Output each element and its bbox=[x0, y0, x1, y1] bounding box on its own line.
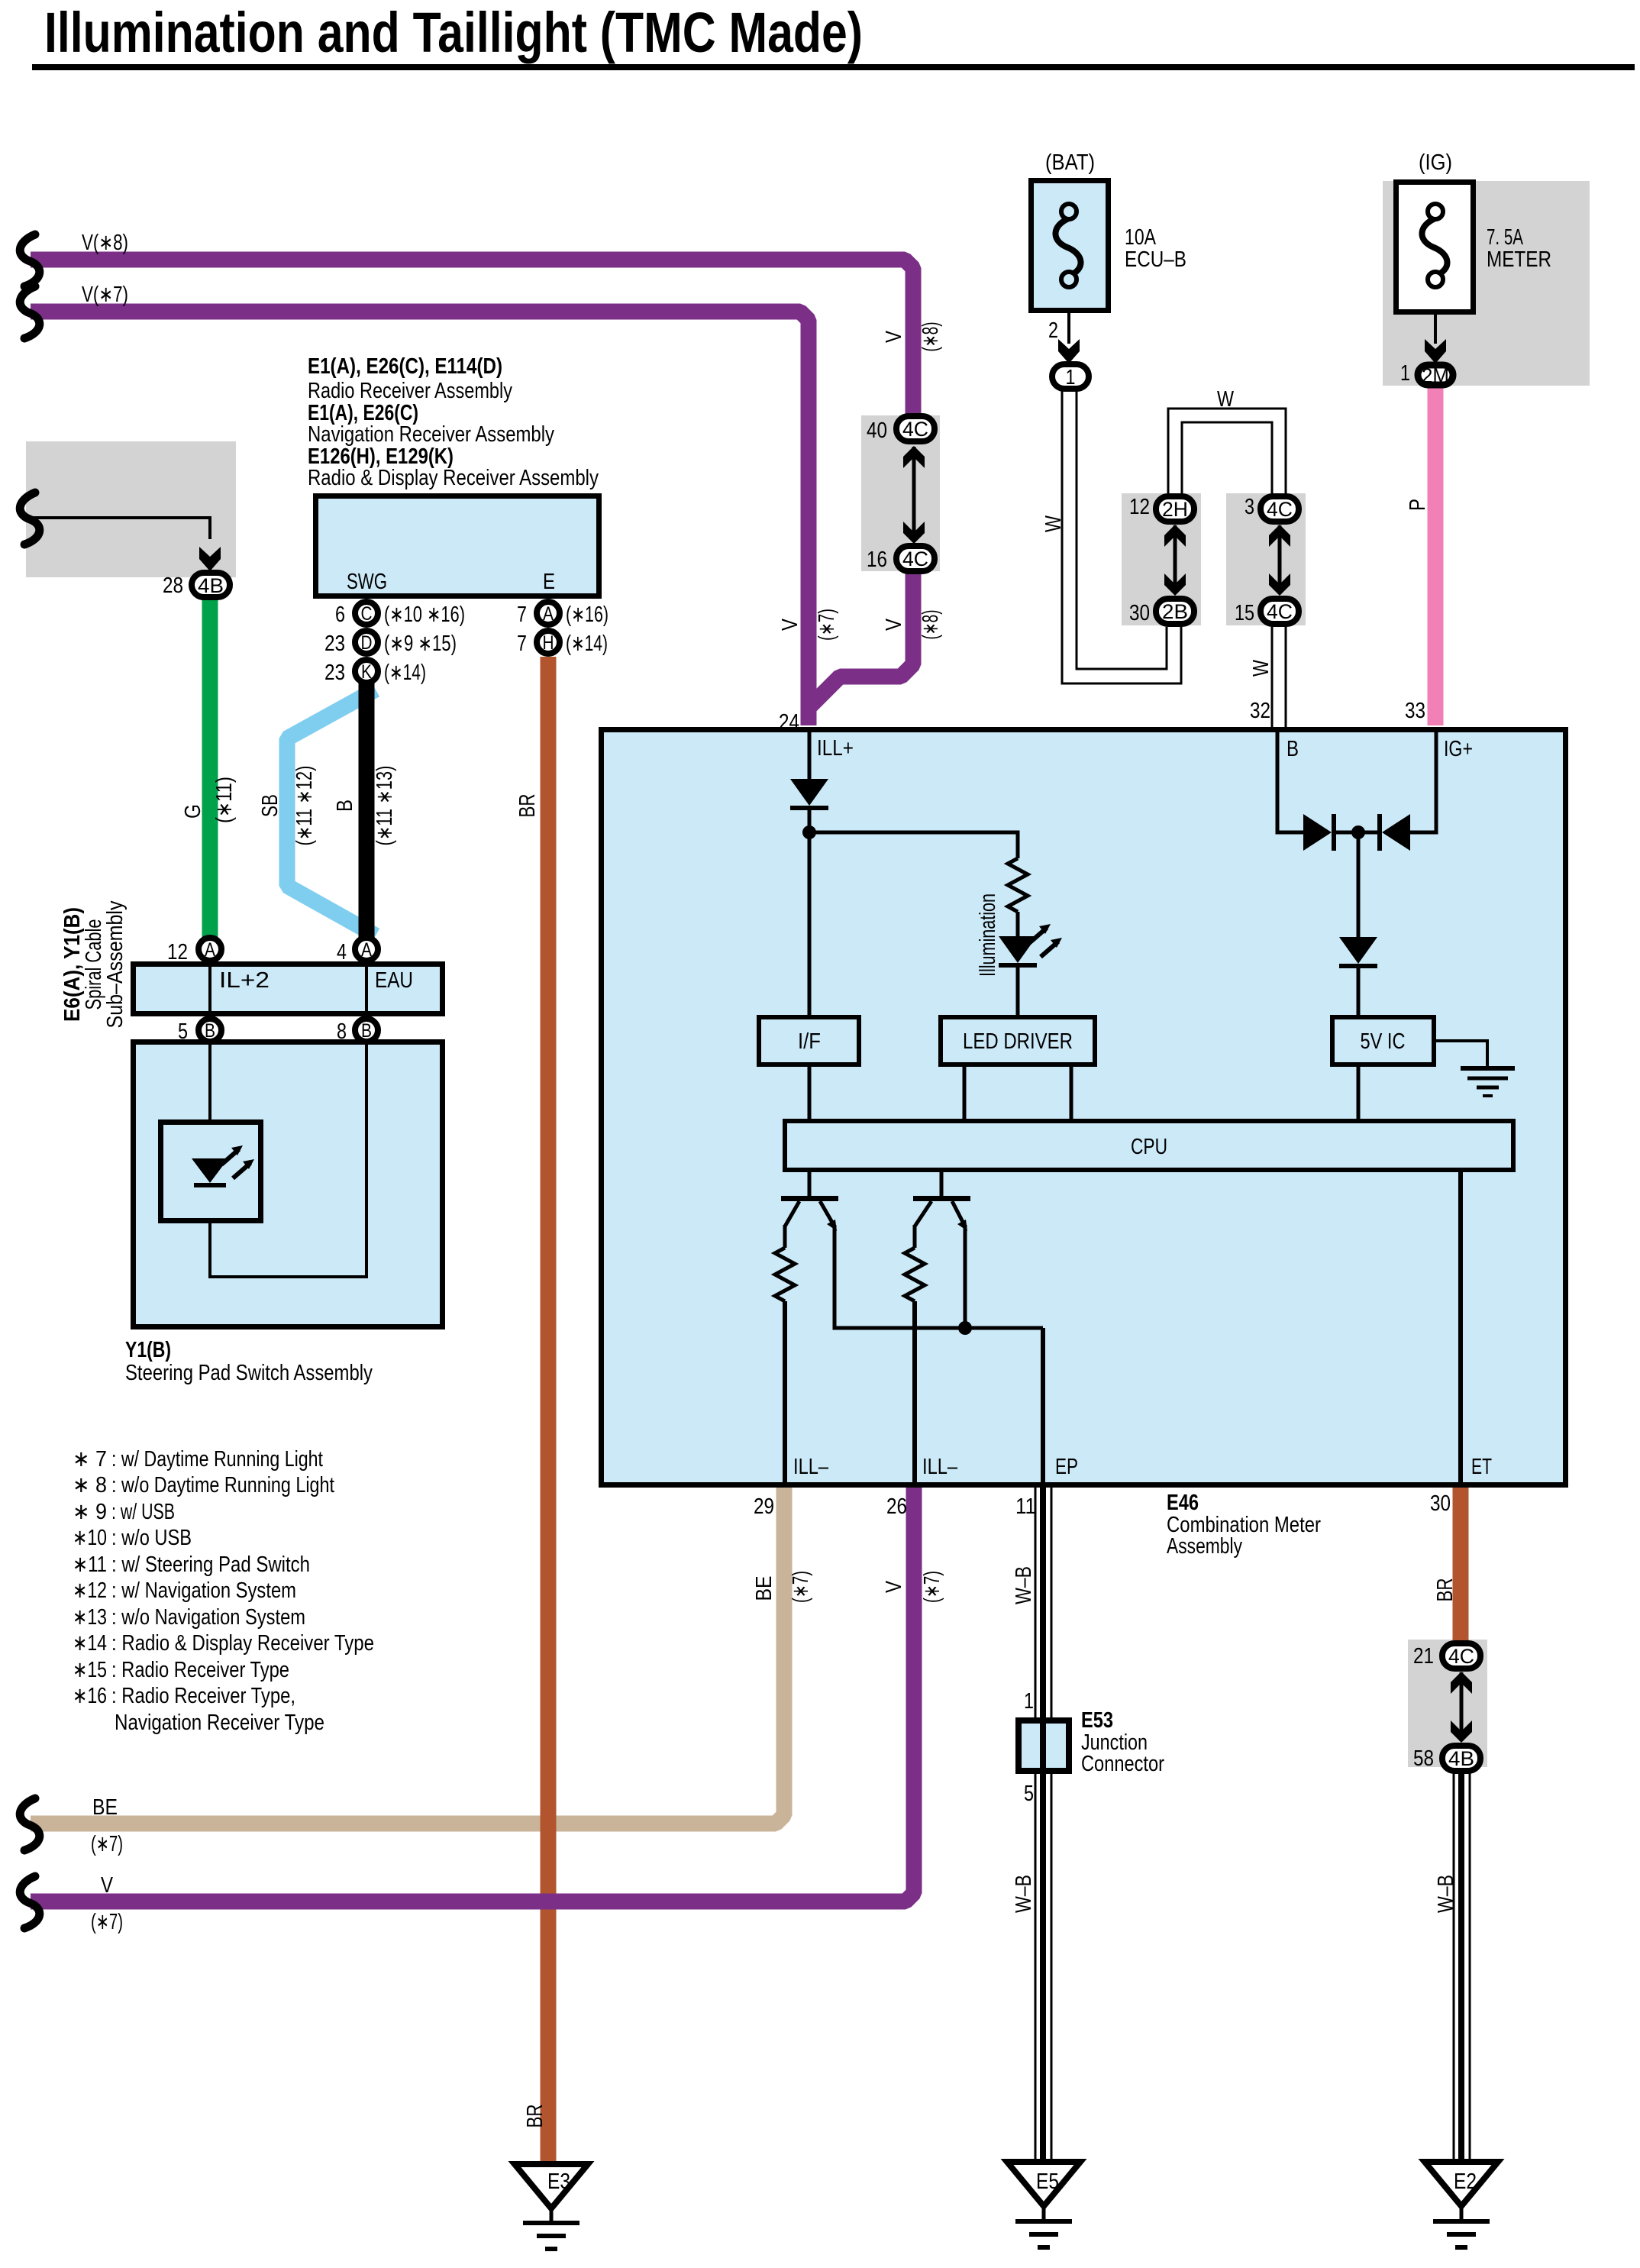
svg-text:A: A bbox=[361, 939, 372, 961]
transistor Q2 base wire bbox=[940, 1170, 944, 1196]
connector pair 21-4C / 58-4B double arrow bbox=[1460, 1672, 1464, 1741]
gray rect of 40/16 4C connector pair bbox=[861, 415, 940, 571]
arrow into connector 28-4B bbox=[199, 547, 221, 571]
svg-text:3: 3 bbox=[1245, 495, 1254, 519]
svg-text:∗11: ∗11 bbox=[73, 1552, 107, 1577]
svg-text:(∗7): (∗7) bbox=[91, 1910, 123, 1934]
svg-text:IL+2: IL+2 bbox=[219, 968, 270, 993]
svg-text:6: 6 bbox=[335, 603, 345, 627]
svg-text:BR: BR bbox=[1433, 1578, 1458, 1602]
wire B pin 32 internal bbox=[1277, 730, 1303, 832]
svg-text:V: V bbox=[882, 1580, 906, 1593]
svg-text:∗14: ∗14 bbox=[73, 1631, 107, 1656]
svg-text:H: H bbox=[543, 632, 554, 654]
svg-text:1: 1 bbox=[1024, 1689, 1034, 1714]
svg-text:11: 11 bbox=[1015, 1494, 1036, 1519]
svg-text:24: 24 bbox=[779, 710, 799, 735]
svg-text:(∗11 ∗12): (∗11 ∗12) bbox=[292, 766, 317, 846]
svg-text:7: 7 bbox=[517, 632, 527, 656]
svg-text:(∗16): (∗16) bbox=[566, 603, 609, 627]
wire W-B from connector 58-4B down to ground E2 bbox=[1453, 1764, 1455, 2159]
svg-text:33: 33 bbox=[1405, 699, 1425, 723]
svg-text:Assembly: Assembly bbox=[1167, 1534, 1242, 1559]
connector 40-4C oval bbox=[896, 416, 935, 441]
wire between diodes down to 5V IC bbox=[1336, 831, 1377, 835]
svg-text:BE: BE bbox=[92, 1795, 118, 1820]
wire Q1 emitter to EP bbox=[835, 1225, 1043, 1328]
fuse ECU-B (BAT) box bbox=[1031, 181, 1109, 311]
svg-text:∗15: ∗15 bbox=[73, 1658, 107, 1682]
diode D2 (from B) bbox=[1303, 814, 1332, 851]
connector 3-4C oval bbox=[1261, 496, 1299, 522]
svg-text:K: K bbox=[361, 661, 372, 683]
svg-text:W: W bbox=[1249, 659, 1274, 677]
spiral cable sub-assembly box bbox=[134, 964, 443, 1014]
wire through spiral box left bbox=[208, 964, 211, 1016]
radio pin H circle bbox=[537, 631, 560, 654]
svg-text:I/F: I/F bbox=[798, 1029, 821, 1054]
wire W loop from connector 12-2H to connector 3-4C bbox=[1168, 409, 1286, 495]
svg-text:Radio & Display Receiver Assem: Radio & Display Receiver Assembly bbox=[308, 466, 599, 490]
CPU box bbox=[785, 1121, 1513, 1170]
E53 junction connector box bbox=[1019, 1720, 1069, 1771]
svg-text:2: 2 bbox=[1048, 318, 1058, 343]
svg-text:Navigation Receiver Type: Navigation Receiver Type bbox=[115, 1711, 324, 1735]
svg-text:(IG): (IG) bbox=[1419, 150, 1452, 175]
wires LED DRIVER to CPU bbox=[963, 1065, 967, 1119]
node junction between diodes bbox=[1351, 825, 1365, 839]
wire ILL- pin 26 internal bbox=[912, 1301, 917, 1485]
svg-text:30: 30 bbox=[1430, 1491, 1451, 1516]
wire from IG fuse to connector 2M bbox=[1434, 314, 1437, 344]
connector 21-4C oval bbox=[1442, 1643, 1480, 1669]
svg-text:: w/ USB: : w/ USB bbox=[111, 1500, 175, 1524]
svg-text:ECU–B: ECU–B bbox=[1125, 247, 1186, 272]
node junction on ILL+ line bbox=[802, 825, 816, 839]
svg-text:4: 4 bbox=[337, 940, 347, 964]
arrow into connector 1 bbox=[1058, 339, 1080, 363]
svg-text:4B: 4B bbox=[198, 574, 224, 597]
E46 combination meter assembly box bbox=[602, 730, 1566, 1485]
5V IC box bbox=[1332, 1017, 1434, 1065]
svg-text:ILL–: ILL– bbox=[793, 1455, 829, 1479]
resistor R2 (ILL-) bbox=[905, 1248, 925, 1301]
svg-text:B: B bbox=[1286, 737, 1299, 761]
radio pin K circle bbox=[355, 660, 378, 683]
svg-text:A: A bbox=[543, 603, 554, 625]
connector 30-2B oval bbox=[1156, 599, 1194, 624]
svg-text:(∗11 ∗13): (∗11 ∗13) bbox=[373, 766, 397, 846]
gray rect of 3-4C/15-4C connector pair bbox=[1226, 493, 1306, 625]
connector 15-4C oval bbox=[1261, 599, 1299, 624]
svg-text:26: 26 bbox=[886, 1494, 907, 1519]
steering pad switch assembly box bbox=[134, 1042, 443, 1327]
LED illumination bbox=[999, 936, 1037, 963]
svg-text:BE: BE bbox=[752, 1576, 776, 1601]
svg-text:V(∗8): V(∗8) bbox=[82, 231, 128, 255]
svg-text:E5: E5 bbox=[1036, 2169, 1059, 2194]
LED in steering pad switch bbox=[192, 1158, 228, 1183]
svg-text:: Radio Receiver Type: : Radio Receiver Type bbox=[111, 1658, 289, 1682]
svg-text:P: P bbox=[1406, 499, 1430, 511]
break symbol for bottom wire V bbox=[20, 1876, 40, 1928]
svg-text:: w/o Daytime Running Light: : w/o Daytime Running Light bbox=[111, 1473, 334, 1497]
svg-text:(∗8): (∗8) bbox=[918, 322, 943, 352]
svg-text:4C: 4C bbox=[1267, 600, 1293, 623]
transistor Q2 bbox=[913, 1196, 970, 1201]
I/F box bbox=[759, 1017, 859, 1065]
svg-text:: w/o Navigation System: : w/o Navigation System bbox=[111, 1605, 305, 1630]
svg-text:4B: 4B bbox=[1448, 1747, 1474, 1770]
connector pair 3-4C / 15-4C double arrow bbox=[1278, 525, 1282, 594]
svg-text:CPU: CPU bbox=[1131, 1135, 1167, 1159]
wire ILL+ pin 24 internal bbox=[808, 730, 812, 779]
svg-text:∗13: ∗13 bbox=[73, 1605, 107, 1630]
svg-text:Navigation Receiver Assembly: Navigation Receiver Assembly bbox=[308, 422, 554, 447]
svg-text:4C: 4C bbox=[1267, 498, 1293, 521]
svg-text:58: 58 bbox=[1413, 1746, 1434, 1771]
svg-text:∗16: ∗16 bbox=[73, 1684, 107, 1708]
svg-text:: w/ Daytime Running Light: : w/ Daytime Running Light bbox=[111, 1447, 323, 1472]
wire IG+ pin 33 internal bbox=[1410, 730, 1436, 832]
svg-text:B: B bbox=[205, 1020, 215, 1042]
radio pin C circle bbox=[355, 602, 378, 625]
svg-text:E3: E3 bbox=[547, 2169, 570, 2194]
fuse METER (IG) box bbox=[1396, 183, 1474, 312]
svg-text:E: E bbox=[543, 570, 555, 594]
svg-text:Y1(B): Y1(B) bbox=[125, 1338, 171, 1362]
svg-text:Illumination and Taillight (TM: Illumination and Taillight (TMC Made) bbox=[44, 1, 863, 64]
svg-text:W: W bbox=[1041, 515, 1066, 532]
wire through spiral box right bbox=[365, 964, 368, 1016]
svg-text:(∗14): (∗14) bbox=[566, 632, 608, 656]
svg-text:23: 23 bbox=[324, 632, 345, 656]
svg-text:2B: 2B bbox=[1162, 600, 1188, 623]
svg-text:(∗7): (∗7) bbox=[920, 1571, 944, 1603]
radio pin A circle bbox=[537, 602, 560, 625]
svg-text:: w/ Navigation System: : w/ Navigation System bbox=[111, 1578, 296, 1603]
wire Q1 collector to resistor bbox=[783, 1225, 787, 1248]
svg-text:40: 40 bbox=[867, 418, 887, 443]
svg-text:: Radio & Display Receiver Typ: : Radio & Display Receiver Type bbox=[111, 1631, 374, 1656]
svg-text:G: G bbox=[181, 804, 205, 819]
connector 1 (BAT) oval bbox=[1052, 364, 1089, 389]
connector 28-4B oval bbox=[192, 573, 230, 597]
svg-text:(∗9 ∗15): (∗9 ∗15) bbox=[384, 632, 457, 656]
svg-text:7. 5A: 7. 5A bbox=[1487, 225, 1523, 250]
radio pin D circle bbox=[355, 631, 378, 654]
svg-text:ILL+: ILL+ bbox=[817, 736, 854, 761]
LED DRIVER box bbox=[941, 1017, 1095, 1065]
ground E3 bbox=[515, 2164, 588, 2208]
wire P pink: from 2M connector down to E46 pin 33 IG+ bbox=[1428, 386, 1444, 725]
diode D1 (ILL+) bbox=[790, 779, 828, 806]
svg-text:4C: 4C bbox=[1448, 1645, 1474, 1668]
wire 5V IC to internal ground bbox=[1434, 1041, 1487, 1067]
arrow into connector 2M bbox=[1425, 339, 1446, 363]
connector 12-2H oval bbox=[1156, 496, 1194, 522]
wire B black: from radio pin K down to spiral cable pin 4 A bbox=[359, 683, 375, 938]
svg-text:E46: E46 bbox=[1167, 1491, 1199, 1515]
svg-text:Steering Pad Switch Assembly: Steering Pad Switch Assembly bbox=[125, 1361, 373, 1385]
svg-text:W: W bbox=[1217, 387, 1235, 412]
svg-text:(∗11): (∗11) bbox=[212, 777, 237, 823]
spiral pin 4 A circle bbox=[355, 938, 378, 961]
svg-text:10A: 10A bbox=[1125, 225, 1157, 250]
inner box around LED bbox=[161, 1123, 261, 1221]
svg-text:SB: SB bbox=[258, 794, 282, 817]
wire from pin 5 B through LED bbox=[208, 1042, 211, 1158]
svg-text:BR: BR bbox=[515, 794, 540, 818]
svg-text:A: A bbox=[205, 939, 215, 961]
svg-text:(∗7): (∗7) bbox=[789, 1571, 813, 1603]
svg-text:(∗10 ∗16): (∗10 ∗16) bbox=[384, 603, 465, 627]
spiral pin 5 B circle bbox=[199, 1019, 221, 1042]
connector 16-4C oval bbox=[896, 546, 935, 571]
svg-text:W–B: W–B bbox=[1012, 1566, 1036, 1604]
wire V (*7) bottom purple: from left edge to pin 26 of E46 bbox=[31, 1485, 914, 1901]
svg-text:V: V bbox=[882, 618, 906, 631]
spiral pin 12 A circle bbox=[199, 938, 221, 961]
connector pair 40-4C / 16-4C double arrow bbox=[912, 447, 916, 542]
svg-text:8: 8 bbox=[337, 1019, 347, 1044]
wire BR from radio pin H down to ground E3 bbox=[541, 657, 557, 2161]
svg-text:28: 28 bbox=[163, 573, 183, 598]
svg-text:Illumination: Illumination bbox=[976, 893, 1000, 977]
svg-text:D: D bbox=[361, 632, 373, 654]
svg-text:(∗7): (∗7) bbox=[815, 609, 839, 641]
wire W-B from E46 pin 11 EP through E53 to ground E5 bbox=[1035, 1485, 1037, 2159]
svg-text:B: B bbox=[361, 1020, 372, 1042]
ground E5 bbox=[1007, 2162, 1080, 2206]
svg-text:2H: 2H bbox=[1162, 498, 1188, 521]
svg-text:LED DRIVER: LED DRIVER bbox=[963, 1029, 1073, 1054]
svg-text:EAU: EAU bbox=[375, 968, 413, 993]
wire branch to illumination resistor bbox=[809, 832, 1018, 858]
wire V(*8) top purple: from left edge to connector 40-4C bbox=[31, 260, 913, 417]
wire BR from E46 pin 30 ET down to connector 21-4C bbox=[1453, 1485, 1469, 1640]
wire EP pin 11 internal bbox=[1041, 1328, 1045, 1485]
gray rect of 12-2H/30-2B connector pair bbox=[1122, 493, 1201, 625]
wire V(*8) lower segment: from connector 16-4C merging into V(*7) riser bbox=[809, 570, 913, 708]
wire V (*7) riser: from top horizontal down to E46 pin 24 ILL+ bbox=[31, 312, 809, 725]
svg-text:: w/o USB: : w/o USB bbox=[111, 1526, 192, 1550]
svg-text:V(∗7): V(∗7) bbox=[82, 283, 128, 307]
wire from BAT fuse to connector 1 bbox=[1067, 313, 1070, 344]
svg-text:Radio Receiver Assembly: Radio Receiver Assembly bbox=[308, 379, 512, 403]
wire ET pin 30 internal bbox=[1458, 1170, 1463, 1485]
svg-text:30: 30 bbox=[1129, 601, 1150, 625]
transistor Q1 base wire bbox=[808, 1170, 812, 1196]
svg-text:12: 12 bbox=[1129, 495, 1150, 519]
svg-text:V: V bbox=[882, 330, 906, 343]
ground E2 bbox=[1425, 2162, 1498, 2206]
wire SB skyblue loop beside black B wire bbox=[287, 690, 376, 935]
resistor R1 (ILL-) bbox=[775, 1248, 795, 1301]
svg-text:(BAT): (BAT) bbox=[1045, 150, 1095, 175]
svg-text:∗ 7: ∗ 7 bbox=[73, 1447, 107, 1472]
svg-text:EP: EP bbox=[1055, 1455, 1078, 1479]
wire G green: from 4B connector down to spiral cable pin 12 A bbox=[202, 577, 218, 938]
svg-text:IG+: IG+ bbox=[1444, 737, 1473, 761]
gray rect of 21-4C/58-4B connector pair bbox=[1408, 1640, 1487, 1767]
spiral pin 8 B circle bbox=[355, 1019, 378, 1042]
svg-text:: Radio Receiver Type,: : Radio Receiver Type, bbox=[111, 1684, 295, 1708]
svg-text:ILL–: ILL– bbox=[922, 1455, 958, 1479]
wire BE (*7) beige: from left edge to pin 29 of E46 bbox=[31, 1485, 784, 1824]
fuse ECU-B element bbox=[1055, 218, 1080, 276]
svg-text:ET: ET bbox=[1471, 1455, 1492, 1479]
title underline bbox=[32, 64, 1635, 70]
wire ILL- pin 29 internal bbox=[783, 1301, 787, 1485]
gray shield region around 4B connector (E6/Y1 harness) bbox=[26, 441, 236, 577]
internal ground symbol bbox=[1461, 1066, 1515, 1071]
connector pair 12-2H / 30-2B double arrow bbox=[1174, 525, 1177, 594]
node junction on EP wire bbox=[958, 1321, 972, 1335]
svg-text:∗10: ∗10 bbox=[73, 1526, 107, 1550]
svg-text:4C: 4C bbox=[902, 548, 928, 570]
connector 2M oval bbox=[1418, 365, 1453, 385]
fuse METER element bbox=[1422, 218, 1447, 276]
svg-text:E2: E2 bbox=[1454, 2169, 1477, 2194]
svg-text:(∗7): (∗7) bbox=[91, 1832, 123, 1856]
svg-text:(∗8): (∗8) bbox=[918, 610, 943, 640]
connector 58-4B oval bbox=[1442, 1746, 1480, 1771]
break symbol for wire V(*8) bbox=[20, 234, 40, 286]
svg-text:SWG: SWG bbox=[347, 570, 387, 594]
svg-text:29: 29 bbox=[754, 1494, 774, 1519]
break symbol for wire V(*7) bbox=[20, 286, 40, 338]
radio receiver assembly box bbox=[316, 496, 599, 596]
svg-text:∗ 9: ∗ 9 bbox=[73, 1500, 107, 1524]
wire Q2 emitter down bbox=[964, 1225, 967, 1328]
svg-text:1: 1 bbox=[1400, 361, 1410, 386]
svg-text:5V IC: 5V IC bbox=[1361, 1029, 1406, 1054]
svg-text:∗12: ∗12 bbox=[73, 1578, 107, 1603]
wire thin black from left break to 4B connector arrow bbox=[34, 518, 210, 539]
svg-text:(∗14): (∗14) bbox=[384, 661, 426, 685]
svg-text:: w/ Steering Pad Switch: : w/ Steering Pad Switch bbox=[111, 1552, 310, 1577]
svg-text:5: 5 bbox=[1024, 1782, 1034, 1806]
wire stripe through E53 bbox=[1040, 1720, 1046, 1771]
svg-text:∗ 8: ∗ 8 bbox=[73, 1473, 107, 1497]
svg-text:7: 7 bbox=[517, 603, 527, 627]
svg-text:Sub–Assembly: Sub–Assembly bbox=[103, 900, 128, 1028]
svg-text:12: 12 bbox=[167, 940, 188, 964]
transistor Q1 bbox=[781, 1196, 838, 1201]
svg-text:V: V bbox=[778, 618, 802, 631]
wire I/F to CPU bbox=[808, 1065, 812, 1119]
svg-text:4C: 4C bbox=[902, 418, 928, 441]
diode D3 (from IG+) bbox=[1382, 814, 1410, 851]
svg-text:METER: METER bbox=[1487, 247, 1551, 272]
svg-text:23: 23 bbox=[324, 661, 345, 685]
diode D4 (to 5V IC) bbox=[1339, 937, 1377, 964]
svg-text:BR: BR bbox=[523, 2105, 547, 2128]
svg-text:C: C bbox=[361, 603, 373, 625]
svg-text:E1(A), E26(C), E114(D): E1(A), E26(C), E114(D) bbox=[308, 354, 502, 379]
wire W from connector 15-4C to E46 pin 32 B bbox=[1271, 624, 1274, 727]
svg-text:1: 1 bbox=[1066, 365, 1076, 389]
svg-text:W–B: W–B bbox=[1434, 1875, 1458, 1913]
svg-text:16: 16 bbox=[867, 548, 887, 572]
svg-text:Connector: Connector bbox=[1081, 1752, 1164, 1776]
break symbol for 4B harness wire bbox=[20, 493, 40, 544]
svg-text:E53: E53 bbox=[1081, 1708, 1113, 1733]
svg-text:W–B: W–B bbox=[1012, 1875, 1036, 1913]
wire W (white) from BAT connector 1 to connector 30-2B bbox=[1062, 389, 1181, 683]
resistor R illumination bbox=[1008, 858, 1028, 912]
svg-text:21: 21 bbox=[1413, 1644, 1434, 1669]
wire Q2 collector to resistor bbox=[913, 1225, 917, 1248]
svg-text:B: B bbox=[333, 800, 357, 812]
wire 5V IC to CPU bbox=[1357, 1065, 1361, 1119]
svg-text:2M: 2M bbox=[1422, 364, 1449, 387]
break symbol for wire BE bbox=[20, 1798, 40, 1850]
gray shield region around IG fuse bbox=[1383, 181, 1590, 386]
svg-text:V: V bbox=[101, 1873, 114, 1898]
svg-text:5: 5 bbox=[178, 1019, 188, 1044]
svg-text:15: 15 bbox=[1235, 601, 1254, 625]
svg-text:32: 32 bbox=[1250, 699, 1270, 723]
